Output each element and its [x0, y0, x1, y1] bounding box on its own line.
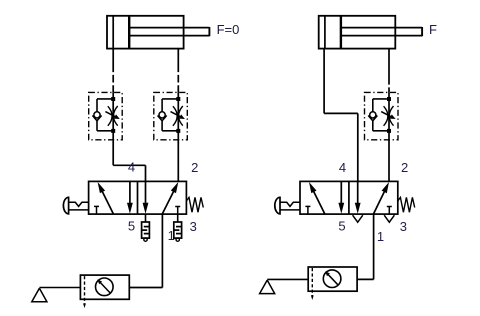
port label 1 of valve 2V1 — [377, 229, 384, 244]
silencer on valve 1V1 port 3 — [174, 214, 182, 241]
svg-text:3: 3 — [190, 219, 197, 234]
valve 1V1 push button actuator — [63, 197, 88, 214]
port label 2 of valve 2V1 — [401, 160, 408, 175]
water drain of 0Z1 — [83, 276, 86, 308]
port label 5 of valve 1V1 — [128, 218, 135, 233]
svg-text:1: 1 — [377, 229, 384, 244]
svg-text:1: 1 — [168, 228, 175, 243]
svg-text:2: 2 — [401, 160, 408, 175]
svg-text:5: 5 — [338, 218, 345, 233]
water drain of 0Z2 — [311, 268, 314, 300]
valve 2V1 push button actuator — [275, 197, 300, 214]
intake line of 0Z1 — [39, 287, 80, 289]
valve 2V1 right position flow paths — [355, 181, 392, 214]
supply line 0Z2 to valve — [357, 278, 374, 280]
flow control valve 1V2 (one-way, dash-dot frame) — [89, 92, 123, 140]
svg-text:3: 3 — [400, 219, 407, 234]
intake triangle of 0Z1 — [32, 288, 47, 302]
wire valve 1V1 port 1 to service unit 0Z1 — [161, 214, 163, 288]
port label 3 of valve 2V1 — [400, 219, 407, 234]
port label 1 of valve 1V1 — [168, 228, 175, 243]
wire flow control 1V2 to valve 1V1 port 4 — [113, 140, 145, 181]
wire cylinder 2A left port to valve 2V1 port 4 — [324, 49, 358, 182]
svg-text:4: 4 — [128, 160, 135, 175]
force label F=0 — [217, 22, 240, 37]
air service unit 0Z2 — [308, 267, 357, 291]
wire cylinder 1A right port to flow control 1V3 — [177, 49, 179, 93]
flow control valve 1V3 (one-way, dash-dot frame) — [154, 92, 188, 140]
valve 2V1 left position flow paths — [305, 181, 344, 214]
wire flow control 2V2 to valve 2V1 port 2 — [388, 140, 390, 181]
intake line of 0Z2 — [267, 278, 308, 280]
flow control valve 2V2 (one-way, dash-dot frame) — [365, 92, 399, 140]
port label 5 of valve 2V1 — [338, 218, 345, 233]
supply line 0Z1 to valve — [129, 287, 162, 289]
svg-text:2: 2 — [191, 160, 198, 175]
port label 3 of valve 1V1 — [190, 219, 197, 234]
svg-text:F: F — [429, 22, 437, 37]
force label F — [429, 22, 437, 37]
5/2-way valve 1V1 body — [89, 181, 187, 214]
silencer on valve 1V1 port 5 — [142, 214, 150, 241]
cylinder 2A (double-acting) — [319, 16, 422, 49]
wire valve 2V1 port 1 to service unit 0Z2 — [373, 214, 375, 279]
valve 1V1 right position flow paths — [143, 181, 181, 214]
exhaust triangle on valve 2V1 port 5 — [353, 215, 363, 222]
valve 2V1 return spring — [398, 197, 415, 212]
intake triangle of 0Z2 — [260, 280, 275, 294]
exhaust triangle on valve 2V1 port 3 — [384, 215, 394, 222]
wire cylinder 2A right port to flow control 2V2 — [388, 49, 390, 93]
wire flow control 1V3 to valve 1V1 port 2 — [177, 140, 179, 181]
valve 1V1 return spring — [186, 197, 203, 212]
svg-text:5: 5 — [128, 218, 135, 233]
wire cylinder 1A left port to flow control 1V2 — [112, 49, 114, 93]
svg-text:4: 4 — [339, 160, 346, 175]
svg-text:F=0: F=0 — [217, 22, 240, 37]
5/2-way valve 2V1 body — [300, 181, 398, 214]
port label 4 of valve 1V1 — [128, 160, 135, 175]
port label 2 of valve 1V1 — [191, 160, 198, 175]
air service unit 0Z1 — [80, 275, 129, 299]
port label 4 of valve 2V1 — [339, 160, 346, 175]
valve 1V1 left position flow paths — [94, 181, 133, 214]
cylinder 1A (double-acting) — [107, 16, 209, 49]
